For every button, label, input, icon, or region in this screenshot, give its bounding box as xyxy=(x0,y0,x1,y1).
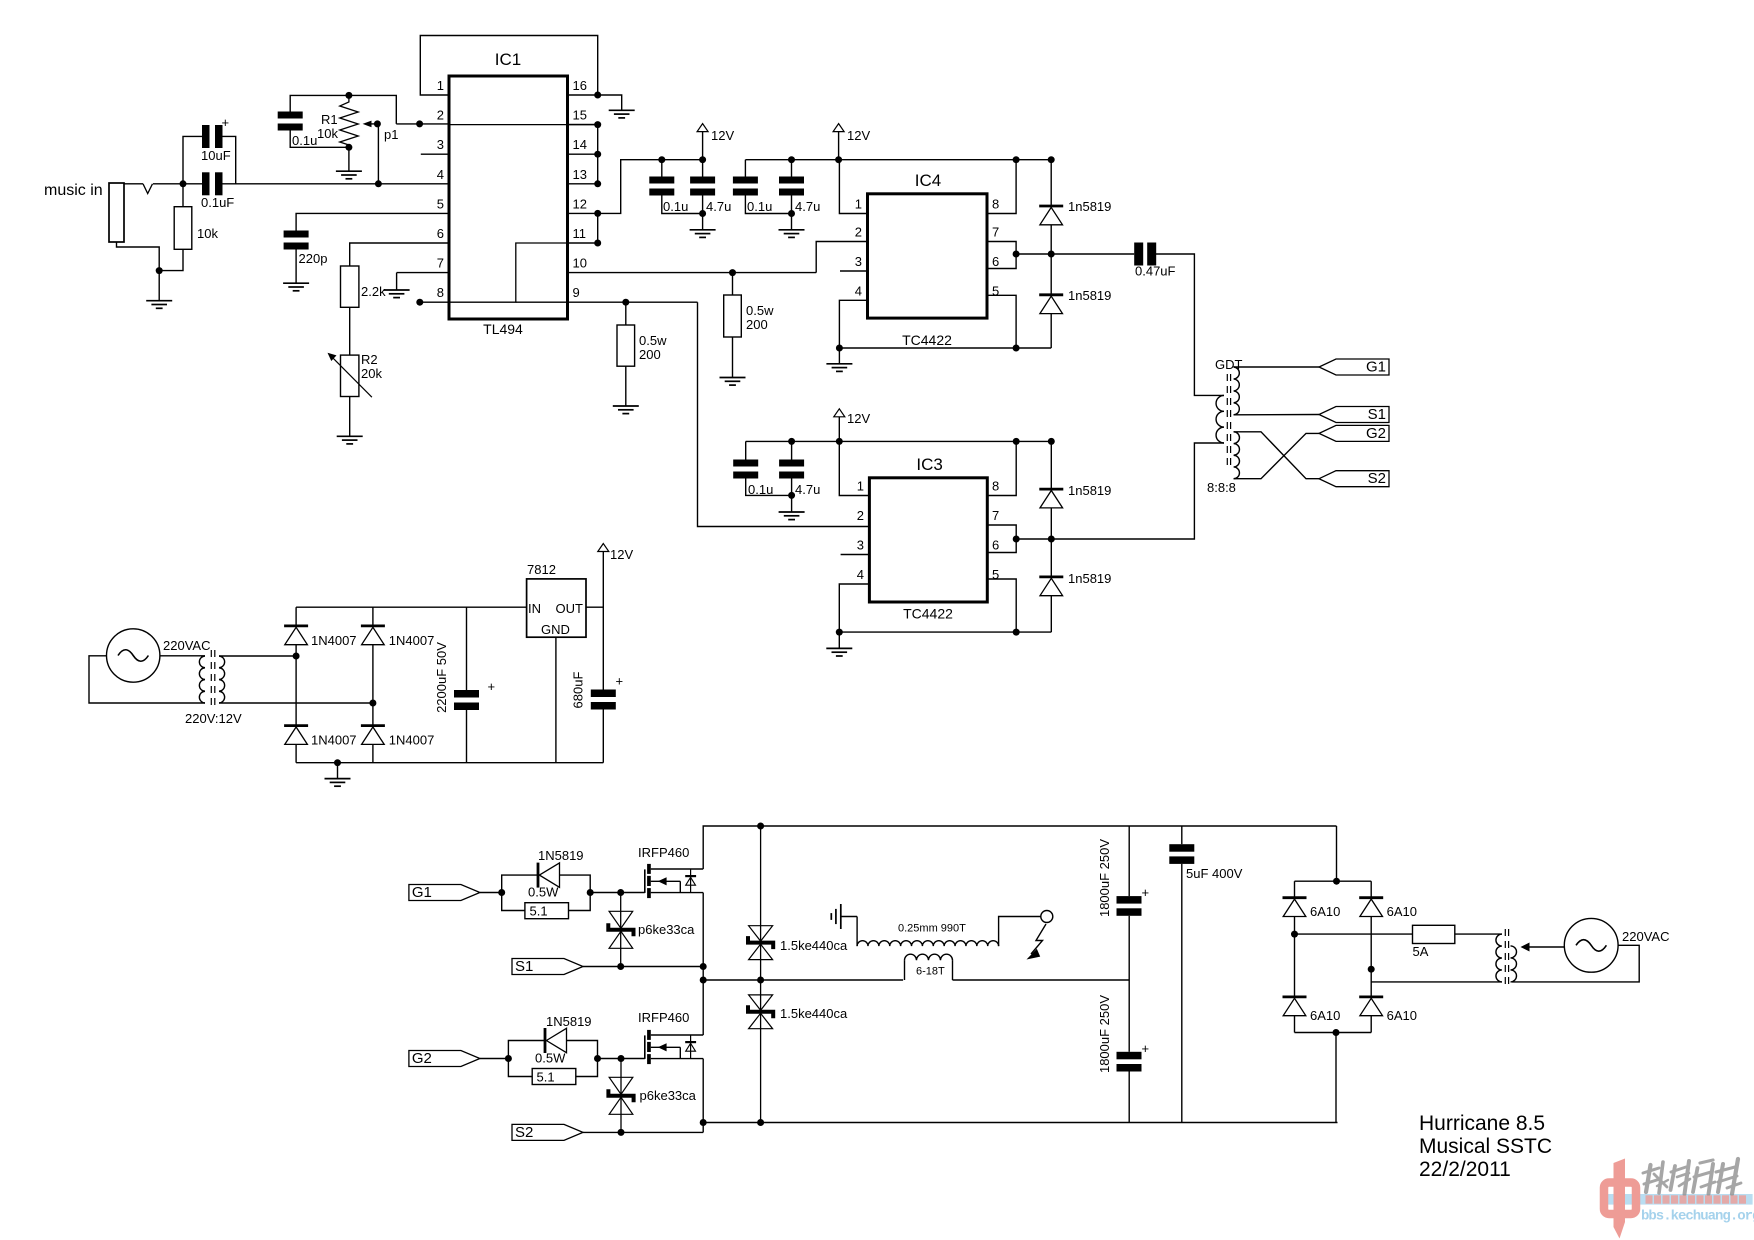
wire IC3 pin8 xyxy=(987,441,1016,495)
IC4 pin4 label xyxy=(855,283,862,298)
svg-text:TC4422: TC4422 xyxy=(903,606,953,622)
svg-text:4: 4 xyxy=(855,283,862,298)
svg-text:TC4422: TC4422 xyxy=(902,332,952,348)
pin 4 label xyxy=(437,167,444,182)
wire R2 to ground xyxy=(349,397,351,437)
svg-text:5: 5 xyxy=(992,567,999,582)
wire mains loop xyxy=(89,656,205,703)
ground pin7 xyxy=(384,290,410,298)
node S1 tvs xyxy=(617,963,624,970)
wire bridge2 right col xyxy=(1370,881,1372,1032)
pin 13 label xyxy=(573,167,587,182)
node pin16 xyxy=(594,92,601,99)
pin 12 label xyxy=(573,196,587,211)
node IC4 gnd rail left xyxy=(836,345,843,352)
svg-text:15: 15 xyxy=(573,108,587,123)
IC4 pin7 label xyxy=(992,225,999,240)
svg-text:4.7u: 4.7u xyxy=(795,482,820,497)
wire G1 resistor branch xyxy=(502,893,591,911)
diode 6A10 top-right xyxy=(1359,898,1417,919)
node pin14 xyxy=(594,151,601,158)
node pin13 xyxy=(594,180,601,187)
node bridge2 bottom xyxy=(1333,1029,1340,1036)
wire IC4 pin3 stub xyxy=(840,270,868,272)
svg-text:R1: R1 xyxy=(321,112,338,127)
node S2 tvs xyxy=(618,1129,625,1136)
svg-text:1N4007: 1N4007 xyxy=(389,733,435,748)
svg-text:8:8:8: 8:8:8 xyxy=(1207,480,1236,495)
wire mains to primary xyxy=(160,655,205,657)
svg-text:2: 2 xyxy=(437,108,444,123)
svg-text:5.1: 5.1 xyxy=(530,903,548,918)
svg-text:5: 5 xyxy=(992,283,999,298)
IC4 pin2 label xyxy=(855,225,862,240)
svg-text:220V:12V: 220V:12V xyxy=(185,711,242,726)
svg-text:1N4007: 1N4007 xyxy=(389,633,435,648)
pin 9 label xyxy=(573,285,580,300)
svg-text:12: 12 xyxy=(573,196,587,211)
svg-text:music in: music in xyxy=(44,182,103,199)
wire 4.7u2 to ground xyxy=(791,196,793,230)
wire mains source return xyxy=(1512,945,1639,982)
wire bridge col2 xyxy=(372,607,374,763)
IC3 pin2 label xyxy=(857,508,864,523)
svg-text:0.25mm 990T: 0.25mm 990T xyxy=(898,923,966,935)
svg-text:3: 3 xyxy=(855,254,862,269)
wire 220p to ground xyxy=(295,250,297,284)
svg-text:7: 7 xyxy=(992,508,999,523)
wire IC3 pin5 xyxy=(987,579,1016,632)
capacitor 10uF xyxy=(201,115,231,163)
wire IC4 out to cap xyxy=(1016,253,1134,255)
svg-text:0.5W: 0.5W xyxy=(535,1051,566,1066)
IC4 pin3 label xyxy=(855,254,862,269)
wire G1 tag to node xyxy=(480,892,502,894)
ground rail1 xyxy=(690,230,716,238)
svg-text:7: 7 xyxy=(437,256,444,271)
pin 15 label xyxy=(573,108,587,123)
potentiometer R1 10k zigzag xyxy=(317,98,358,148)
svg-text:S1: S1 xyxy=(515,958,533,975)
wire S2 xyxy=(583,1131,703,1133)
IC4 pin1 label xyxy=(855,197,862,212)
wire IC4 gnd rail xyxy=(839,347,1051,349)
wire 4.7u cap2 top xyxy=(791,160,793,177)
node rail3 cap xyxy=(788,438,795,445)
wire IC3 out to GDT xyxy=(1016,443,1224,539)
watermark kechuang logo xyxy=(1604,1159,1754,1239)
diode D2 1N4007 xyxy=(361,626,434,648)
svg-text:220p: 220p xyxy=(299,251,328,266)
wire bridge2 top rail xyxy=(1295,880,1372,882)
wire to ground xyxy=(158,271,160,301)
tag G2 in xyxy=(409,1050,480,1067)
wire wiper to pin4 line xyxy=(377,124,379,184)
svg-text:680uF: 680uF xyxy=(571,672,586,709)
svg-text:0.5w: 0.5w xyxy=(639,333,667,348)
node bridge2 right mid xyxy=(1368,966,1375,973)
wire jack tip to node A xyxy=(124,183,183,185)
wire Q2 source to S2 xyxy=(702,1059,704,1133)
wire IC4 pin1 xyxy=(839,160,867,214)
lightning spark xyxy=(1027,924,1047,960)
wire bridge2 bottom center xyxy=(1335,1033,1337,1123)
suppressor p6ke33ca A xyxy=(608,893,695,967)
fuse 5A xyxy=(1413,925,1455,959)
inductor secondary 0.25mm 990T xyxy=(857,923,999,947)
svg-text:1N4007: 1N4007 xyxy=(311,633,357,648)
node rail3 gnd junction xyxy=(788,492,795,499)
driver IC3 TC4422 body xyxy=(869,455,987,622)
ground IC3 xyxy=(826,648,852,656)
svg-text:3: 3 xyxy=(857,538,864,553)
wire R1 top rail xyxy=(290,95,396,124)
op-amp IC1 TL494 body xyxy=(449,50,568,337)
svg-text:IC3: IC3 xyxy=(916,455,942,474)
wire 10uF parallel loop xyxy=(183,136,236,183)
tag S2 out xyxy=(1319,470,1389,487)
wire GDT sec2 cross to G2 xyxy=(1234,433,1319,478)
node tvs2 bottom xyxy=(757,1119,764,1126)
ground input xyxy=(146,301,172,309)
node rail3 diode top xyxy=(1048,438,1055,445)
pin 7 label xyxy=(437,256,444,271)
svg-text:R2: R2 xyxy=(361,352,378,367)
svg-text:22/2/2011: 22/2/2011 xyxy=(1419,1158,1511,1181)
audio jack J1 xyxy=(109,183,124,242)
node G2 tvs tap xyxy=(618,1055,625,1062)
wire secondary top xyxy=(999,917,1041,947)
wire jack sleeve to ground node xyxy=(117,242,184,271)
node R1 top junction xyxy=(345,92,352,99)
capacitor 0.47uF xyxy=(1134,243,1175,279)
capacitor 680uF xyxy=(571,672,624,763)
svg-text:6-18T: 6-18T xyxy=(916,966,945,978)
wire IC4 pin6 xyxy=(987,254,1016,269)
wire bridge2 right mid to transformer xyxy=(1371,981,1502,983)
svg-text:2: 2 xyxy=(857,508,864,523)
node wiper junction xyxy=(374,120,381,127)
inductor primary 6-18T xyxy=(905,954,953,980)
source 220VAC mains small xyxy=(107,629,211,682)
diode D3 1N4007 xyxy=(284,726,356,748)
wire pin15 stub xyxy=(568,124,598,126)
capacitor 0.1u rail1 xyxy=(649,177,688,215)
wire IC4 pin7 xyxy=(987,242,1016,255)
svg-text:1.5ke440ca: 1.5ke440ca xyxy=(780,1006,848,1021)
svg-text:20k: 20k xyxy=(361,366,382,381)
wire 2.2k to R2 xyxy=(349,307,351,355)
IC4 pin5 label xyxy=(992,283,999,298)
svg-text:6A10: 6A10 xyxy=(1387,904,1417,919)
wire IC3 gnd rail xyxy=(839,631,1051,633)
svg-text:2: 2 xyxy=(855,225,862,240)
svg-text:13: 13 xyxy=(573,167,587,182)
text 8:8:8 xyxy=(1207,480,1236,495)
GDT core xyxy=(1227,374,1230,466)
diode 1n5819 upper A xyxy=(1039,160,1111,254)
svg-text:3: 3 xyxy=(437,137,444,152)
node pin11 xyxy=(594,240,601,247)
node rail cap1 xyxy=(658,156,665,163)
svg-text:p6ke33ca: p6ke33ca xyxy=(640,1088,697,1103)
capacitor 220p xyxy=(284,231,328,267)
ground secondary base xyxy=(831,904,841,929)
svg-text:4.7u: 4.7u xyxy=(706,199,731,214)
node pin9 junction xyxy=(622,299,629,306)
wire bridge2 left col xyxy=(1294,881,1296,1032)
wire G2 resistor branch xyxy=(508,1059,597,1077)
transistor Q1 IRFP460 xyxy=(638,845,703,898)
ground PSU xyxy=(325,779,351,787)
wire pin7 xyxy=(397,273,449,290)
svg-text:0.1u: 0.1u xyxy=(292,133,317,148)
svg-text:9: 9 xyxy=(573,285,580,300)
wire bridge2 bottom rail xyxy=(1295,1032,1372,1034)
node rail cap2 xyxy=(788,156,795,163)
svg-text:8: 8 xyxy=(437,285,444,300)
wire Q1 source to S1 to Q2 drain xyxy=(702,893,704,1035)
wire 7812 gnd xyxy=(555,637,557,763)
transformer mains secondary xyxy=(1496,934,1502,982)
node G1 tvs tap xyxy=(617,889,624,896)
node bridge2 left mid xyxy=(1291,931,1298,938)
svg-text:8: 8 xyxy=(992,479,999,494)
wire rail segment 3 xyxy=(746,440,1052,442)
svg-text:6A10: 6A10 xyxy=(1387,1008,1417,1023)
node IC4 out xyxy=(1013,251,1020,258)
wire S1 xyxy=(583,966,703,968)
wire 200A to ground xyxy=(625,366,627,406)
ground R1 xyxy=(336,171,362,179)
wire 4.7u cap top xyxy=(702,160,704,177)
body diode Q2 xyxy=(685,1035,696,1059)
node bottom bus junction xyxy=(700,1119,707,1126)
source 220VAC mains xyxy=(1564,918,1669,972)
svg-text:1: 1 xyxy=(437,78,444,93)
node PSU ground tap xyxy=(334,759,341,766)
node IC3 out xyxy=(1013,536,1020,543)
capacitor 0.1uF xyxy=(201,172,234,210)
wire pin14 stub xyxy=(568,153,598,155)
text label music in xyxy=(44,182,103,199)
node G2 left xyxy=(505,1055,512,1062)
wire G2 to gate xyxy=(598,1058,645,1060)
svg-text:S1: S1 xyxy=(1368,406,1386,423)
pin 16 label xyxy=(573,78,587,93)
wire pin11 stub xyxy=(568,242,598,244)
wire PSU bottom rail xyxy=(296,762,603,764)
node rail 12V-B xyxy=(835,156,842,163)
pin 3 label xyxy=(437,137,444,152)
node IC4 diode mid xyxy=(1048,251,1055,258)
svg-text:1800uF 250V: 1800uF 250V xyxy=(1097,839,1112,917)
ground pin16 xyxy=(609,110,635,118)
wire pin9 line xyxy=(568,301,698,303)
transformer 220V:12V secondary xyxy=(219,656,225,703)
svg-text:p6ke33ca: p6ke33ca xyxy=(638,922,695,937)
supply 12V arrow D xyxy=(598,544,634,563)
wire pin2-15 through line xyxy=(449,124,568,126)
svg-text:bbs.kechuang.org: bbs.kechuang.org xyxy=(1641,1209,1754,1225)
node rail3 to IC3 pin8 xyxy=(1013,438,1020,445)
wire G1 to gate xyxy=(590,892,645,894)
tag S2 in xyxy=(512,1124,583,1141)
svg-text:0.1u: 0.1u xyxy=(663,199,688,214)
ground rail2 xyxy=(779,230,805,238)
svg-text:8: 8 xyxy=(992,197,999,212)
tag S1 in xyxy=(512,958,583,975)
wire IC3 pin1 xyxy=(839,441,869,495)
svg-text:220VAC: 220VAC xyxy=(1622,929,1669,944)
svg-text:5uF 400V: 5uF 400V xyxy=(1186,866,1243,881)
node bridge left mid xyxy=(293,653,300,660)
driver IC4 TC4422 body xyxy=(868,171,988,348)
pin 5 label xyxy=(437,196,444,211)
svg-text:OUT: OUT xyxy=(556,601,584,616)
svg-text:6A10: 6A10 xyxy=(1310,1008,1340,1023)
svg-text:IN: IN xyxy=(528,601,541,616)
node G1 left xyxy=(498,889,505,896)
GDT secondary 2 winding xyxy=(1234,432,1240,479)
svg-text:S2: S2 xyxy=(1368,470,1386,487)
wire secondary top to bridge xyxy=(219,655,296,657)
transformer mains core xyxy=(1505,929,1508,987)
svg-text:200: 200 xyxy=(746,317,768,332)
IC3 pin4 label xyxy=(857,567,864,582)
pin 1 label xyxy=(437,78,444,93)
pin 2 label xyxy=(437,108,444,123)
svg-text:1.5ke440ca: 1.5ke440ca xyxy=(780,938,848,953)
node G1 right xyxy=(587,889,594,896)
wire IC3 pin3 stub xyxy=(841,554,870,556)
node pin2 junction xyxy=(416,120,423,127)
wire 200B to ground xyxy=(732,337,734,378)
svg-text:11: 11 xyxy=(573,226,587,241)
svg-text:+: + xyxy=(488,679,496,694)
node tvs1 top xyxy=(757,823,764,830)
jack tip contact mark xyxy=(143,184,153,194)
GDT secondary 1 winding xyxy=(1234,367,1240,415)
wire 4.7u cap3 top xyxy=(791,441,793,459)
wire bridge2 top center xyxy=(1336,826,1338,881)
resistor R3 5.1 0.5W xyxy=(525,885,569,919)
resistor R4 5.1 0.5W xyxy=(532,1051,576,1085)
svg-text:1N5819: 1N5819 xyxy=(546,1014,592,1029)
wire Q1 drain riser xyxy=(703,826,1336,869)
node tvs1 bottom xyxy=(757,977,764,984)
svg-text:10k: 10k xyxy=(317,126,338,141)
svg-text:G1: G1 xyxy=(1366,359,1386,376)
IC1 internal connection xyxy=(449,243,568,302)
svg-text:GND: GND xyxy=(541,622,570,637)
wire IC4 gnd stem xyxy=(838,348,840,364)
wire IC3 gnd stem xyxy=(838,632,840,648)
svg-text:1n5819: 1n5819 xyxy=(1068,483,1111,498)
node wiper-pin4 junction xyxy=(375,180,382,187)
svg-text:2.2k: 2.2k xyxy=(361,284,386,299)
svg-text:2200uF 50V: 2200uF 50V xyxy=(434,642,449,713)
node pin12 xyxy=(594,210,601,217)
wire 0.1u cap1 top xyxy=(661,160,663,177)
ground rail3 xyxy=(779,512,805,520)
transformer 220V:12V primary xyxy=(199,656,205,703)
svg-text:1: 1 xyxy=(855,197,862,212)
svg-text:10k: 10k xyxy=(197,226,218,241)
node rail1 gnd junction xyxy=(699,210,706,217)
wire pin12 stub xyxy=(568,212,598,214)
wire rail segment 2 xyxy=(745,159,1051,161)
diode D6 1N5819 xyxy=(545,1014,592,1053)
node A junction xyxy=(180,180,187,187)
svg-text:6: 6 xyxy=(992,538,999,553)
svg-text:Hurricane 8.5: Hurricane 8.5 xyxy=(1419,1112,1545,1135)
svg-text:p1: p1 xyxy=(384,127,398,142)
svg-text:7: 7 xyxy=(992,225,999,240)
svg-text:0.1u: 0.1u xyxy=(747,199,772,214)
resistor 0.5w 200 A xyxy=(617,302,667,366)
svg-text:12V: 12V xyxy=(711,128,734,143)
wire secondary base xyxy=(841,917,857,947)
svg-text:5: 5 xyxy=(437,196,444,211)
capacitor 4.7u rail3 xyxy=(779,460,820,498)
svg-text:1N4007: 1N4007 xyxy=(311,733,357,748)
wire 4.7u to ground xyxy=(702,196,704,230)
wire pin2 xyxy=(396,123,449,125)
svg-text:6: 6 xyxy=(437,226,444,241)
GDT primary winding xyxy=(1216,395,1224,443)
wire IC4 pin4 xyxy=(839,300,867,348)
wire pin8 stub xyxy=(420,301,449,303)
capacitor 2200uF 50V xyxy=(434,607,495,763)
ground R2 xyxy=(337,436,363,444)
regulator 7812 xyxy=(527,562,586,637)
wire IC3 pin7 xyxy=(987,525,1016,539)
svg-text:+: + xyxy=(222,115,230,130)
IC3 pin7 label xyxy=(992,508,999,523)
svg-text:IC1: IC1 xyxy=(495,50,521,69)
svg-text:TL494: TL494 xyxy=(483,321,523,337)
svg-text:4: 4 xyxy=(437,167,444,182)
wire bottom bus xyxy=(703,1122,1337,1124)
wire IC4 pin5 xyxy=(987,295,1016,348)
title text xyxy=(1419,1112,1552,1181)
wire pin10 line xyxy=(568,272,817,274)
ground 200A xyxy=(613,406,639,414)
wire cap2 bottom xyxy=(745,196,791,214)
node rail to IC4 pin1 xyxy=(1013,156,1020,163)
text GDT xyxy=(1215,357,1243,372)
svg-text:6: 6 xyxy=(992,254,999,269)
wire 0.47uF to GDT primary top xyxy=(1155,254,1224,395)
svg-text:5A: 5A xyxy=(1413,944,1429,959)
capacitor 5uF 400V xyxy=(1169,826,1242,1123)
diode 1n5819 upper B xyxy=(1039,441,1111,539)
svg-text:7812: 7812 xyxy=(527,562,556,577)
supply 12V arrow A xyxy=(697,124,734,160)
node ground junction xyxy=(156,267,163,274)
wire PSU ground stem xyxy=(337,763,339,779)
svg-text:4: 4 xyxy=(857,567,864,582)
svg-text:0.47uF: 0.47uF xyxy=(1135,264,1176,279)
wire pin9 to IC3 pin2 xyxy=(698,302,870,526)
transistor Q2 IRFP460 xyxy=(638,1010,703,1064)
wire pin13 stub xyxy=(568,183,598,185)
wire rail segment 1 xyxy=(662,159,703,161)
wire 0.1u cap2 top xyxy=(744,160,746,177)
suppressor 1.5ke440ca B xyxy=(748,980,848,1123)
svg-text:IRFP460: IRFP460 xyxy=(638,1010,689,1025)
